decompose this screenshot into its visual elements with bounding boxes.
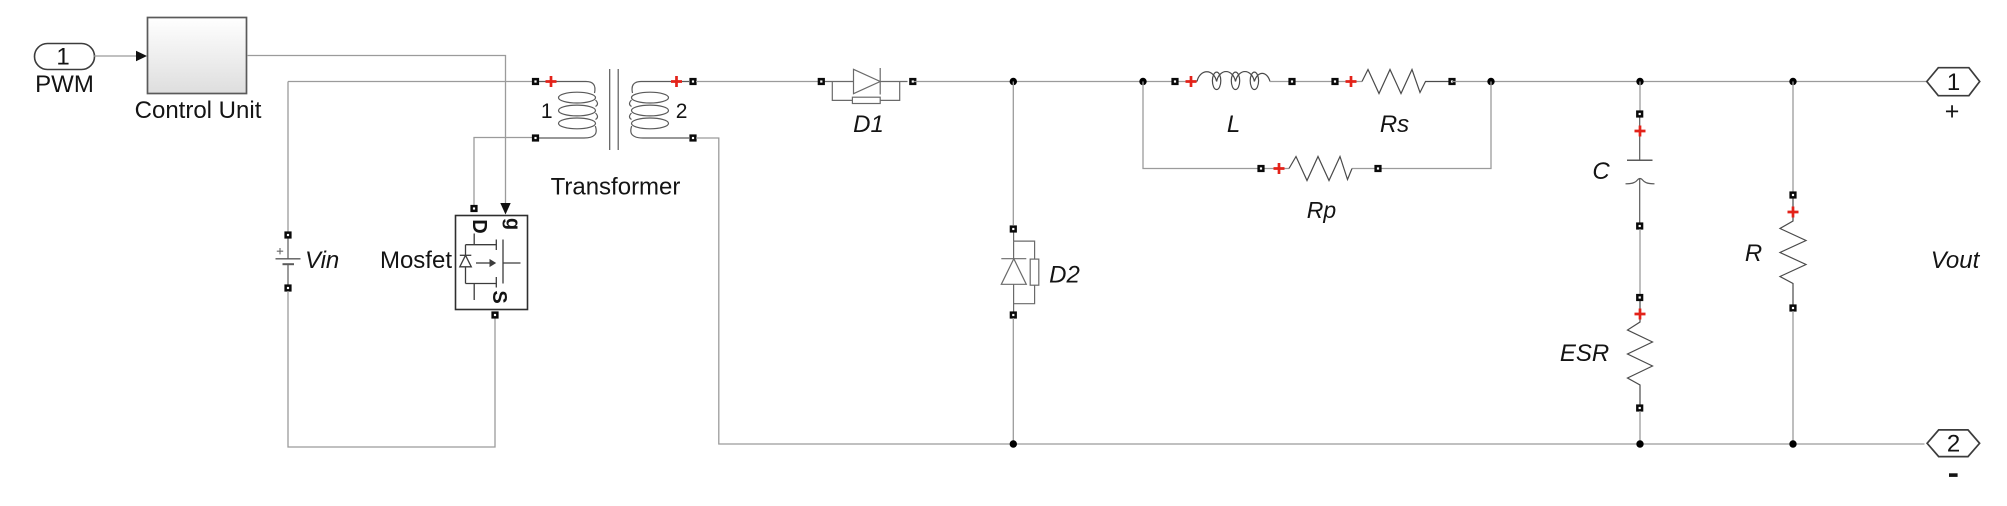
port square transformer winding2 top [689,78,696,85]
wire Rp parallel branch [1143,82,1258,169]
svg-text:Vin: Vin [305,247,339,274]
port square C top [1636,110,1643,117]
port square transformer winding2 bottom [689,134,696,141]
port square L right [1288,78,1295,85]
port square ESR top [1636,294,1643,301]
port square D2 bottom [1010,311,1017,318]
arrowhead into Mosfet g port [500,203,510,215]
battery source Vin [276,238,301,285]
svg-text:2: 2 [676,100,688,123]
svg-text:L: L [1227,111,1240,138]
svg-text:C: C [1592,158,1610,185]
wire R drop [1792,82,1794,193]
polarity mark + winding 1 [546,76,557,87]
wire D2 bottom to rail [1012,318,1014,444]
port square D1 left [818,78,825,85]
wire R to bottom rail [1792,311,1794,444]
svg-text:+: + [1945,98,1960,126]
polarity mark + Rs [1346,76,1357,87]
svg-text:Rp: Rp [1307,197,1337,223]
resistor R [1780,198,1806,305]
svg-text:R: R [1745,240,1762,267]
arrowhead into Control Unit input [136,51,147,62]
wire top rail D1 to L [914,81,1197,83]
junction node D2 bottom rail [1010,440,1017,447]
junction node R bottom [1789,440,1796,447]
svg-text:D2: D2 [1049,262,1080,289]
wire Vin vertical top [287,82,289,233]
junction node ESR bottom [1636,440,1643,447]
junction node Rp branch left [1139,78,1146,85]
port square L left [1171,78,1178,85]
svg-text:Vout: Vout [1931,247,1981,274]
svg-text:1: 1 [56,44,69,71]
transformer T1 [538,69,689,150]
svg-text:PWM: PWM [35,71,94,98]
polarity mark + Rp [1274,163,1285,174]
polarity mark + winding 2 [671,76,682,87]
svg-text:Control Unit: Control Unit [135,97,262,124]
wire D2 drop [1012,82,1014,226]
port square Rs right [1448,78,1455,85]
label - under port 2 [1949,473,1958,477]
port square R top [1789,191,1796,198]
svg-text:D: D [468,219,490,233]
port square D1 right [909,78,916,85]
subsystem block Control Unit [148,18,247,94]
port square transformer winding1 bottom [532,134,539,141]
port square R bottom [1789,304,1796,311]
wire transformer winding2 top to D1 [696,81,818,83]
svg-text:S: S [488,290,510,303]
resistor Rs [1362,70,1449,94]
port square Rs left [1331,78,1338,85]
polarity mark + ESR [1635,309,1646,320]
junction node Rp branch right [1487,78,1494,85]
port square Vin + [284,231,291,238]
polarity mark + R [1788,207,1799,218]
port square Rp left [1257,165,1264,172]
svg-text:1: 1 [541,100,553,123]
svg-text:2: 2 [1947,431,1960,458]
resistor Rp [1289,157,1352,181]
port square Mosfet S [491,311,498,318]
port square Rp right [1374,165,1381,172]
port square transformer winding1 top [532,78,539,85]
mosfet Q1 block [456,216,528,310]
junction node C top [1636,78,1643,85]
capacitor C [1626,117,1655,223]
diode D2 freewheel [1001,233,1038,312]
svg-text:Rs: Rs [1380,111,1409,138]
wire Rs to right junction [1452,81,1927,83]
svg-text:ESR: ESR [1560,340,1609,367]
port square Vin - [284,284,291,291]
polarity mark + C [1635,126,1646,137]
wire Mosfet drain to Transformer winding 1 bottom [474,138,533,206]
diode D1 [825,68,908,104]
connection port 1 hexagon [1927,68,1980,96]
wire ESR to bottom rail [1639,411,1641,444]
svg-text:1: 1 [1947,69,1960,96]
junction node D2 top [1010,78,1017,85]
wire C drop [1639,82,1641,112]
inductor L [1197,72,1270,90]
svg-text:g: g [501,218,523,230]
port square ESR bottom [1636,404,1643,411]
port square Mosfet D [470,205,477,212]
svg-text:Mosfet: Mosfet [380,247,452,274]
wire PWM to Control Unit [94,55,136,57]
wire Control Unit output to Mosfet gate [247,56,506,204]
junction node R top [1789,78,1796,85]
resistor ESR [1628,301,1653,405]
svg-text:D1: D1 [853,111,884,138]
connection port 2 hexagon [1927,430,1980,458]
wire L to Rs [1270,81,1362,83]
port square D2 top [1010,225,1017,232]
wire node Vin+ to Transformer winding 1 top [288,81,533,83]
wire C to ESR [1639,229,1641,295]
wire transformer winding2 bottom to bottom rail [696,138,1925,444]
port square C bottom [1636,222,1643,229]
wire Vin- down, bottom left loop to Mosfet source [288,291,495,447]
svg-text:Transformer: Transformer [551,174,681,201]
polarity mark + L [1186,76,1197,87]
inport block PWM (port 1 oval) [35,44,95,71]
